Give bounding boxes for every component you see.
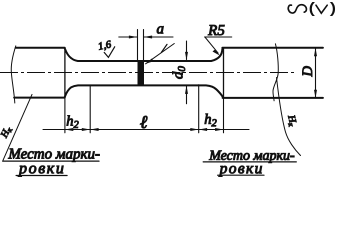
R5 leader [205,38,218,54]
chain arrows [65,128,73,131]
dimension a: line [119,36,173,38]
dimension a: arrows [129,36,152,39]
dimension D: line [315,48,317,97]
svg-text:ровки: ровки [219,160,264,177]
dimension d0: bottom line with arrow [186,86,188,103]
extension line gauge left [89,86,91,132]
check in parens [316,5,327,13]
centerline [0,72,295,74]
svg-text:ровки: ровки [18,160,65,177]
leader left marking [3,94,32,160]
roughness group symbol squiggle [288,5,306,13]
extension line grip left [64,99,66,133]
underline left 1 [3,160,99,162]
R5 underline [205,36,232,38]
dimension D arrows [314,48,317,98]
dimension d0: top line with arrow [186,41,188,60]
underline left 2 [16,175,67,177]
svg-text:): ) [331,0,336,16]
band leader [146,44,175,64]
specimen outline: left grip bottom [14,97,64,99]
left break line [11,46,16,103]
right grip bottom [223,97,323,99]
marking band (black) [138,61,145,86]
svg-text:(: ( [309,0,314,16]
underline right 2 [218,174,264,176]
R5 arrow [213,50,221,56]
right grip top [222,47,323,49]
right break line [273,44,278,101]
band leader arrow [146,59,154,64]
leader right marking [277,78,301,156]
left fillet bottom + gauge bottom + right fillet bottom [65,85,223,96]
underline right 1 [203,161,296,163]
roughness check 1,6 [104,47,115,58]
left fillet top [65,49,223,61]
extension line grip right [223,99,225,133]
band leader tick [161,44,167,52]
extension line gauge right [198,85,200,133]
dimension a: extension lines [138,30,144,61]
svg-text:ℓ: ℓ [140,112,148,132]
svg-text:a: a [157,21,165,37]
left tangent line [64,48,66,98]
specimen outline: left grip top [16,47,65,49]
bottom dimension chain line [43,129,249,131]
svg-text:D: D [300,66,316,78]
right tangent line [223,48,225,98]
